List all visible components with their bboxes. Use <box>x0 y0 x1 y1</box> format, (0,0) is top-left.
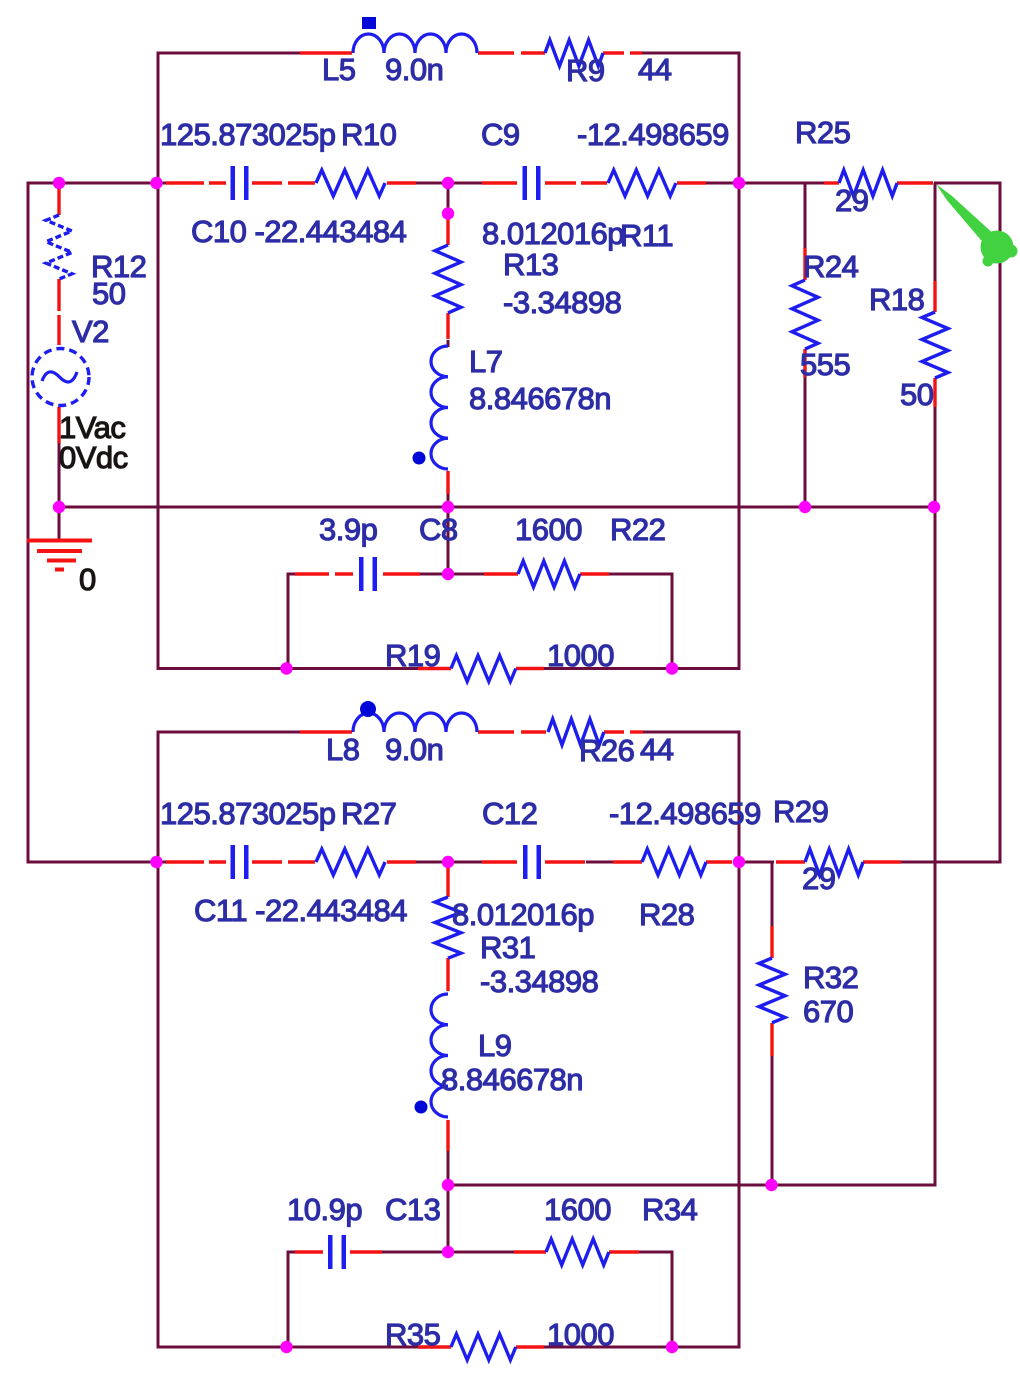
svg-text:-3.34898: -3.34898 <box>480 964 598 999</box>
svg-text:R9: R9 <box>566 53 605 88</box>
svg-text:L9: L9 <box>478 1028 511 1063</box>
svg-text:555: 555 <box>800 347 850 382</box>
svg-text:C12: C12 <box>482 796 537 831</box>
svg-text:R31: R31 <box>480 930 535 965</box>
svg-text:-3.34898: -3.34898 <box>503 285 621 320</box>
svg-text:R27: R27 <box>341 796 396 831</box>
svg-text:C11 -22.443484: C11 -22.443484 <box>194 893 407 928</box>
svg-text:670: 670 <box>803 994 853 1029</box>
svg-text:R26: R26 <box>579 733 634 768</box>
svg-text:C10 -22.443484: C10 -22.443484 <box>191 214 407 249</box>
svg-text:R28: R28 <box>639 897 694 932</box>
svg-text:R29: R29 <box>773 794 828 829</box>
svg-text:R18: R18 <box>869 282 924 317</box>
svg-text:9.0n: 9.0n <box>385 52 443 87</box>
svg-text:8.012016p: 8.012016p <box>452 897 594 932</box>
svg-text:L7: L7 <box>469 344 502 379</box>
svg-text:1000: 1000 <box>547 638 614 673</box>
svg-text:0: 0 <box>79 562 96 597</box>
svg-text:9.0n: 9.0n <box>385 732 443 767</box>
svg-text:29: 29 <box>835 183 868 218</box>
svg-text:125.873025p: 125.873025p <box>160 117 336 152</box>
svg-text:R11: R11 <box>620 218 673 253</box>
svg-text:C13: C13 <box>385 1192 440 1227</box>
svg-text:29: 29 <box>802 861 835 896</box>
svg-text:50: 50 <box>92 276 126 311</box>
svg-text:R10: R10 <box>341 117 397 152</box>
svg-text:R35: R35 <box>385 1317 440 1352</box>
svg-text:V2: V2 <box>72 314 109 349</box>
svg-text:125.873025p: 125.873025p <box>160 796 336 831</box>
svg-text:0Vdc: 0Vdc <box>59 440 128 475</box>
svg-text:1600: 1600 <box>515 512 582 547</box>
svg-text:44: 44 <box>638 52 672 87</box>
svg-text:C9: C9 <box>481 117 520 152</box>
svg-text:8.846678n: 8.846678n <box>469 381 611 416</box>
svg-text:10.9p: 10.9p <box>287 1192 362 1227</box>
svg-text:C8: C8 <box>419 512 458 547</box>
svg-text:L5: L5 <box>322 52 355 87</box>
svg-text:R22: R22 <box>610 512 665 547</box>
svg-text:3.9p: 3.9p <box>319 512 377 547</box>
svg-text:8.012016p: 8.012016p <box>482 216 624 251</box>
svg-text:1000: 1000 <box>547 1317 614 1352</box>
svg-text:-12.498659: -12.498659 <box>577 117 729 152</box>
svg-text:R34: R34 <box>642 1192 698 1227</box>
svg-text:R32: R32 <box>803 960 858 995</box>
svg-text:R25: R25 <box>795 115 850 150</box>
svg-text:R19: R19 <box>385 638 440 673</box>
svg-text:-12.498659: -12.498659 <box>609 796 761 831</box>
svg-text:R24: R24 <box>803 249 859 284</box>
svg-text:44: 44 <box>640 732 674 767</box>
svg-text:8.846678n: 8.846678n <box>441 1062 583 1097</box>
svg-text:R13: R13 <box>503 247 558 282</box>
svg-text:L8: L8 <box>326 732 359 767</box>
svg-text:50: 50 <box>900 377 934 412</box>
svg-text:1600: 1600 <box>544 1192 611 1227</box>
